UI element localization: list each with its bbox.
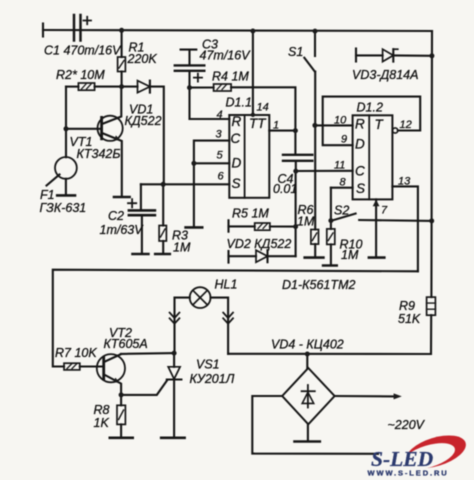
svg-text:3: 3 [216,129,223,141]
svg-text:220K: 220K [127,52,158,66]
svg-text:WWW.S-LED.RU: WWW.S-LED.RU [368,469,449,478]
svg-text:7: 7 [381,205,388,217]
svg-text:C: C [355,164,365,179]
svg-text:5: 5 [217,150,224,162]
svg-text:TT: TT [249,116,267,131]
svg-text:VD4 - КЦ402: VD4 - КЦ402 [271,338,344,352]
svg-text:1M: 1M [297,215,315,229]
svg-text:D: D [355,137,365,152]
svg-text:D1.2: D1.2 [357,101,383,115]
svg-text:HL1: HL1 [215,278,238,292]
svg-text:R2* 10M: R2* 10M [56,68,105,82]
svg-text:6: 6 [218,171,225,183]
svg-text:12: 12 [400,119,412,131]
svg-text:VD3-Д814А: VD3-Д814А [352,68,418,82]
svg-text:R5 1M: R5 1M [232,207,269,221]
svg-text:R4 1M: R4 1M [212,70,249,84]
svg-text:S2: S2 [334,204,349,218]
svg-text:S-LED: S-LED [371,447,434,471]
svg-text:1K: 1K [94,416,110,430]
svg-text:1M: 1M [173,241,191,255]
svg-text:1M: 1M [341,248,359,262]
svg-text:VS1: VS1 [196,358,220,372]
svg-text:ГЗК-631: ГЗК-631 [40,201,87,215]
svg-text:S1: S1 [288,45,303,59]
svg-text:C: C [231,131,241,146]
svg-text:КТ342Б: КТ342Б [77,147,121,161]
svg-text:C1 470m/16V: C1 470m/16V [44,44,122,58]
svg-text:R: R [232,114,242,129]
svg-text:S: S [232,176,241,191]
svg-text:4: 4 [217,109,223,121]
svg-text:~220V: ~220V [388,418,426,432]
svg-text:1m/63V: 1m/63V [100,223,145,237]
svg-text:47m/16V: 47m/16V [200,49,252,63]
svg-text:9: 9 [341,134,347,146]
svg-text:КТ605А: КТ605А [104,337,148,351]
svg-text:D: D [232,156,242,171]
svg-text:D1.1: D1.1 [226,96,252,110]
svg-text:VD2 КД522: VD2 КД522 [227,237,292,251]
svg-text:R: R [355,117,365,132]
svg-text:13: 13 [398,176,411,188]
svg-text:1: 1 [273,120,279,132]
svg-text:S: S [356,181,365,196]
svg-text:14: 14 [257,102,269,114]
svg-text:F1: F1 [40,188,55,202]
svg-text:51K: 51K [398,312,421,326]
svg-text:КД522: КД522 [125,114,162,128]
svg-text:КУ201Л: КУ201Л [190,372,235,386]
svg-text:R8: R8 [94,403,110,417]
svg-text:D1-К561ТМ2: D1-К561ТМ2 [282,278,356,292]
svg-text:C2: C2 [108,209,124,223]
svg-text:10: 10 [334,115,347,127]
svg-text:8: 8 [340,177,347,189]
svg-text:R9: R9 [399,299,415,313]
svg-text:R7 10K: R7 10K [55,346,97,360]
svg-text:0.01: 0.01 [273,182,297,196]
svg-text:11: 11 [334,160,345,172]
